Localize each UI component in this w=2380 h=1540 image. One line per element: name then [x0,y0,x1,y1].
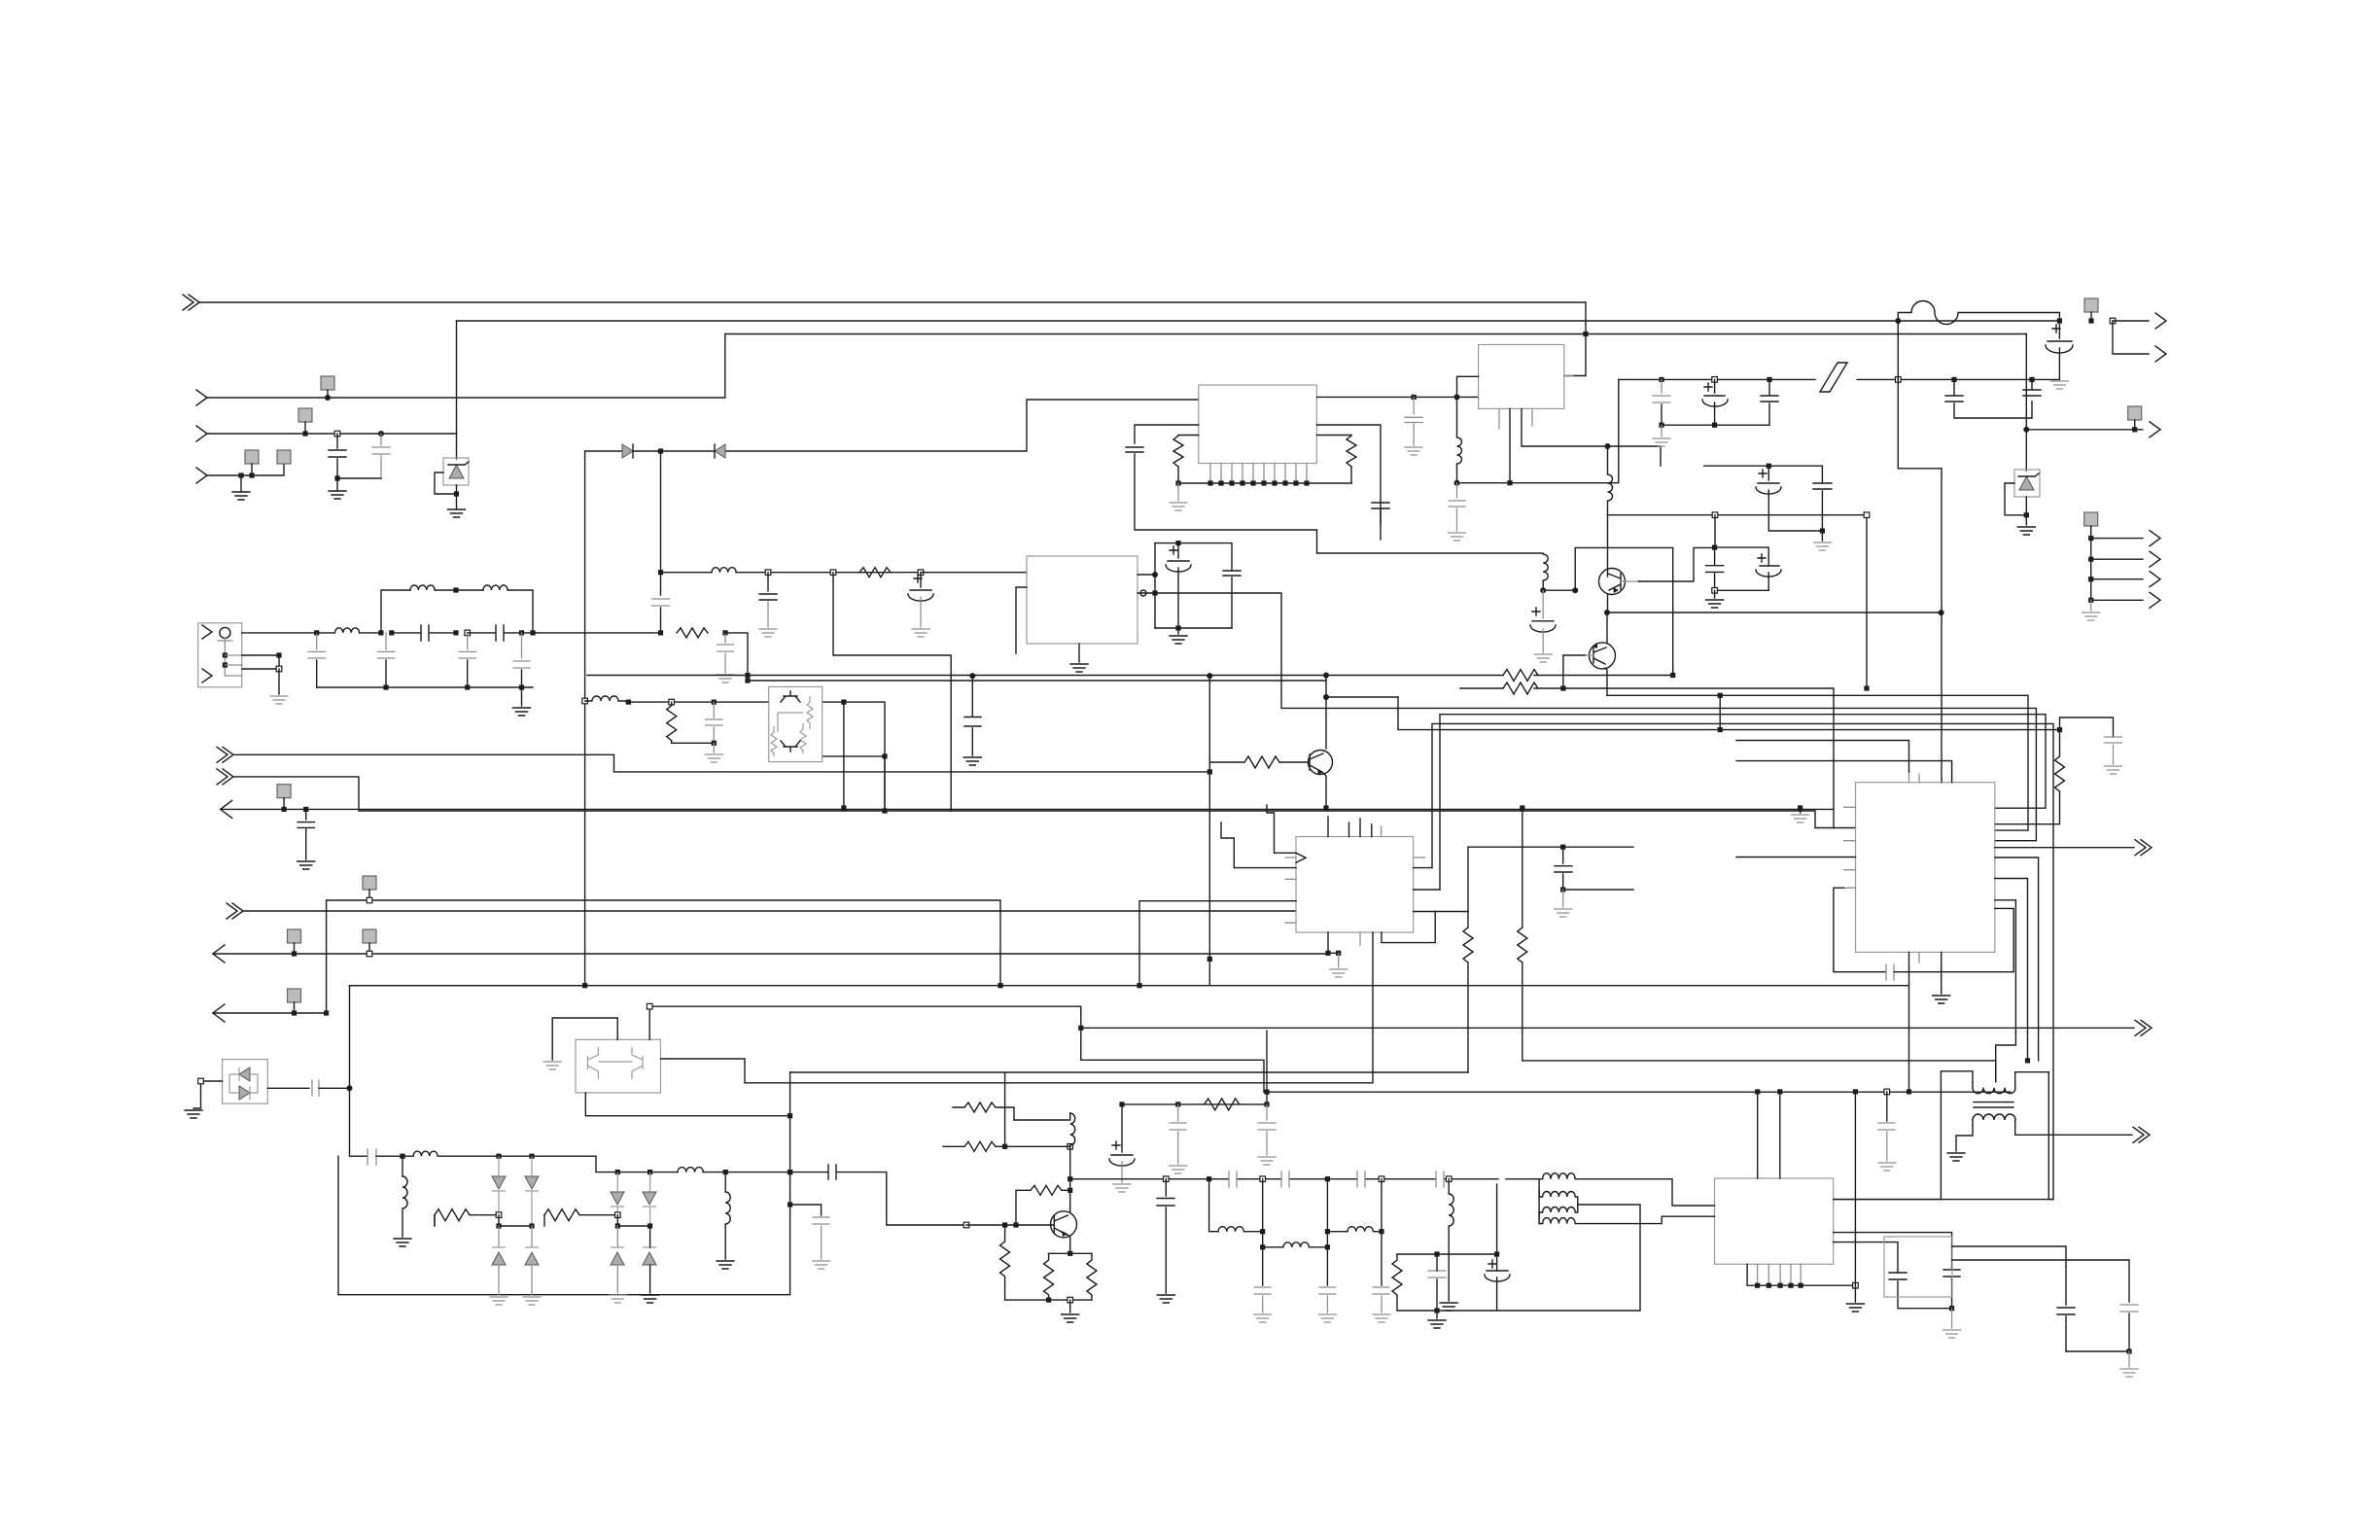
wire bottom rail [1155,627,1232,629]
capacitor C18 [1405,397,1422,445]
capacitor C15 electrolytic [1166,543,1191,572]
wire bus3 [725,333,2026,335]
diode D10 col [611,1192,624,1205]
diode D6 col [492,1176,506,1189]
wire secondary left gnd [1956,1126,1973,1151]
ground under TVS1 [456,494,458,509]
inductor L10 [413,1151,499,1156]
capacitor C32 [1555,847,1572,890]
ground caps row [1661,425,1662,437]
diode D3 [622,444,633,458]
series capacitor C8 [468,625,537,641]
pad TP10 [363,929,376,943]
wire U6 left 881 [1736,857,1856,858]
wire U6 left pins [1844,807,1856,888]
IC U6 [1856,783,1995,953]
wire U1 right pin1 to U4 [1316,396,1478,398]
wire Q2 emitter [1067,1235,1070,1253]
RCA connector J1 [198,623,242,687]
T2 primary [1973,1088,2015,1094]
wire U6 top pins [1909,772,1920,783]
wire pair1 rail top [1704,466,1823,483]
inductor L4 [585,696,626,701]
node open [2110,318,2116,324]
wire U4 left pin [1457,376,1479,397]
wire U6 right 957 [1995,900,2016,1032]
capacitor C49 [1878,1123,1895,1161]
wire Q3 collector [1607,515,1609,569]
inductor L5 [712,568,736,573]
capacitor C23 [1761,379,1778,425]
wire TVS bracket [435,472,457,494]
connector arrow >> bus1 left [183,295,199,310]
wire U3 left pin2 [1016,587,1027,653]
wire y717 Q1 collector riser [1325,676,1327,750]
inductor L12 vert [725,1172,730,1259]
pad TP2 [298,408,312,422]
diode D12 up [611,1246,624,1248]
inductor L7 vert w/ coil 488-518 [1608,446,1613,515]
diode D9 up [525,1246,539,1248]
wire y708 [1460,688,1834,828]
ground C51 [1951,1309,1953,1328]
resistor R13 [943,1141,1005,1151]
wire 1908 vert [1854,1092,1856,1302]
capacitor C13 [759,573,777,600]
diode D7 col [525,1176,539,1189]
inductor L17 vert [1449,1179,1453,1301]
wire coil left vert [1538,1179,1540,1224]
wire V603 to L1013 [350,985,585,987]
wire y715 [1607,695,2028,830]
wire TVS2 bracket [2005,483,2026,515]
wire Q1 emitter [1323,773,1326,808]
wire diode box left gnd [193,1081,223,1108]
capacitor C28 [1706,547,1724,590]
capacitor C1 [329,434,346,478]
wire cap branch [790,1205,822,1215]
resistor R3 [859,568,891,577]
wire L799 step L834 [233,777,1856,828]
wire Q3 emitter to 630 [1607,594,1609,612]
wire U6 bottom loop [1834,888,1886,972]
resistor R2c inside [800,723,806,753]
wire opto out 778 [822,756,885,811]
wire U5 clk riser [1267,805,1296,853]
capacitor C27 [1813,483,1832,531]
IC U1 [1199,385,1317,464]
inductor L16 [1327,1227,1382,1232]
capacitor C20 [1449,483,1465,531]
capacitor C10 [303,807,308,812]
connector arrow > line L5 [196,468,207,483]
wire U6 right 901 arrow [1995,847,2134,849]
wire U5 right 937 [1414,911,1468,913]
wire rail1 [499,1215,532,1226]
connector arrow > line L3 [196,390,207,405]
capacitor C12 [717,633,734,673]
wire U7 bottom left [585,1093,789,1116]
capacitor C38 [813,1217,829,1259]
pad TP8 [277,785,291,798]
inductor L21 (bottom coil) [1543,1218,1576,1224]
resistor R1 [677,628,708,638]
wire bottom rail [317,686,533,688]
wire 4-fan vertical [2090,539,2092,601]
wire L1057 [1081,1027,2134,1029]
wire L1035 [649,1006,1264,1092]
capacitor C22 electrolytic [1702,379,1728,406]
wire rail2 [617,1215,649,1226]
resistor R19 vert [667,702,677,743]
wire caps rail [2066,1350,2129,1352]
wire cap bottoms [337,477,381,479]
connector arrows fan [2150,531,2160,546]
wire fan lines [2091,539,2143,601]
inductor L1 [334,628,359,633]
wire branch 857 [833,573,951,811]
pad TP4 [277,450,291,464]
pin bus U1 [1178,482,1351,484]
TVS D_Z1 box [443,458,469,485]
wire step to arrow2 [2113,321,2149,354]
connector arrow right V+ [2113,320,2149,322]
wire diode box right [267,1087,309,1089]
capacitor C53 electrolytic [1485,1271,1510,1281]
ground pair1 [1821,531,1823,541]
wire U8 right pin A [1834,1199,1942,1201]
capacitor C51 [1943,1270,1960,1309]
resistor R16 [1087,1253,1097,1300]
ground C32 [1562,890,1564,907]
capacitor C9 [513,633,530,668]
wire Q3 base right [1621,580,1639,582]
capacitor C11 in vert [652,599,670,606]
inductor L11 [678,1168,703,1172]
transformer T2 frame A [2015,1072,2053,1200]
wire rail 764 [672,742,715,744]
ground under C3 [2050,381,2068,389]
connector arrow < L831 [221,800,232,818]
wire U5 right 915 riser [1414,889,1440,891]
resistor R2 inside [807,696,813,729]
IC U3 [1027,556,1137,644]
node arrow3 junction [2023,427,2029,433]
resistor R10 [435,1209,499,1221]
T2 secondary [1973,1114,2015,1120]
wire U5 right 882 [1414,857,1425,858]
inductor L6 vert [1457,397,1462,482]
wire diode row [585,400,1199,451]
inductor L9 vert [402,1156,407,1237]
U8 left RC cluster [1434,1251,1439,1256]
capacitor C34 [1170,1104,1186,1164]
pad TP7 [2084,512,2098,526]
node bus3/vert junction [1583,332,1588,336]
wire L776 to L794 [233,754,1209,772]
resistor R4 left [1178,435,1199,437]
node D junction [658,448,663,453]
capacitor C4 [308,633,326,658]
wire 1952 drop to 1997 [1898,379,1942,783]
fuse F1 [1898,301,2059,325]
diode D11 col [643,1192,656,1205]
IC U4 [1479,345,1564,409]
wire V335 step [327,900,1000,1013]
wire V1244 [1207,673,1212,679]
wire U8 right pin caps [1834,1233,1952,1270]
grounds D8 D9 [490,1297,507,1305]
capacitor C25 [2023,379,2041,396]
wire L3 [207,334,725,399]
connector arrow > line L4 [196,426,207,441]
ground under TVS2 [2025,515,2027,525]
wire bottom rail Q2 [1005,1299,1092,1301]
wire RCA signal [242,632,317,634]
ground gray [759,629,777,637]
node fuse junction [1895,318,1901,324]
wire y915 out [1563,889,1633,891]
small open pin circle [1140,590,1146,596]
ground RCA [278,669,280,694]
wire 1365 vert [1326,1179,1328,1285]
transistor Q3 [1599,569,1626,595]
wire bus3 drop right [2025,334,2027,430]
transistor Q8 glyph [632,1047,643,1079]
capacitor C47 [1319,1287,1336,1312]
connector arrow >> right 1057 [2135,1020,2152,1035]
wire row 588 [661,572,713,574]
series capacitor C39 [367,1149,376,1165]
node bus2 end junction [2057,318,2062,323]
wire Q4 base [1585,654,1593,656]
resistor R18 [1392,1254,1437,1311]
wire 1298 vert [1262,1179,1264,1285]
connector arrow < L981 [213,945,225,962]
wire U7 right pin [661,1059,746,1083]
ground gray under C12 [717,675,734,682]
wire coupled out [1497,1205,1640,1311]
wire rail 1135.9 [1122,1092,1267,1104]
connector arrow >> L937 [227,903,243,919]
wire pair2 rail bottom [1715,589,1769,591]
wire bus2 [457,320,2060,322]
wire 1764 drop [1714,515,1716,547]
inductor L19/L20 coupled pair [1539,1190,1578,1205]
inductor L15 [1263,1242,1328,1247]
upper rail inductors L2 L3 [381,590,410,633]
wire L1113 [745,932,1373,1083]
capacitor C30 [2105,737,2122,764]
wire U7 top right [648,1006,650,1039]
wire L831 [221,808,1834,810]
wire y871 [1468,846,1563,848]
wire U7 gnd left [552,1018,617,1060]
wire Q2 collector chain [1069,1146,1071,1211]
wire 1299 riser [1266,1031,1268,1092]
series capacitor C40 [828,1165,966,1225]
wire y734 [1440,715,2046,890]
wire y694 [587,547,1673,675]
resistor R14 fb [1016,1185,1069,1225]
ground under C10 [297,861,315,869]
wire V1 [456,321,458,459]
T2 core [1974,1102,2013,1107]
transistor Q4 [1590,643,1616,669]
wire arrow3 [2026,429,2143,431]
resistor R15 [1044,1253,1054,1300]
capacitor C46 [1254,1287,1271,1312]
wire 1940 vert cap [1886,1092,1888,1121]
wire L1122.9 [1264,1091,2011,1093]
diode D8 up [492,1246,506,1248]
wire opto out elbow [725,633,1326,681]
diode box D5 [223,1060,268,1104]
wire L1042 [213,1012,327,1014]
wire bus1 drop to IC-B pin [1564,334,1586,376]
wire 1421 vert [1381,1179,1382,1285]
ground caps [2128,1351,2130,1367]
ground Q2 [1069,1300,1071,1312]
capacitor C24 [1945,379,2032,418]
wire pair2 rail top [1715,547,1769,566]
resistor R11 [544,1209,617,1221]
resistor R6 vert [1995,730,2065,824]
resistor R12 top [953,1102,1014,1120]
wire V601 [584,451,586,986]
capacitor C2 [372,434,390,478]
capacitor C31 electrolytic [1542,590,1544,618]
ground left of U6 [1800,808,1802,813]
wire 497 rail [1457,379,1619,482]
module box U9 [1884,1237,1952,1297]
capacitor C35 [1258,1104,1276,1155]
wire 867 drop [843,702,845,808]
wire V679 [660,451,662,595]
wire U1 right pin2 [1316,425,1381,525]
capacitor C54 [2057,1308,2075,1351]
resistor R8 [1520,805,1524,810]
sub branch left [1209,1179,1218,1232]
capacitor C16 [1223,571,1241,628]
connector arrow < L1042 [213,1004,225,1022]
ground under L5 [240,475,242,492]
wire V812 [338,1072,790,1295]
wire bus1 [199,302,1586,334]
wire U5 bot-right loop [1382,912,1435,943]
ground pair2 [1714,590,1716,598]
IC U2 dual-transistor box [769,686,822,761]
diode D13 up [643,1246,656,1248]
diode D4 [715,444,725,458]
wire y630 [1607,612,1942,613]
wire y529 row [1608,515,1868,688]
transistor Q2 [1051,1211,1077,1238]
ground [1177,628,1179,634]
capacitor C19 [1372,503,1389,540]
transistor Q1 [1309,751,1333,775]
wire L1103 [790,1071,1468,1073]
U1 bottom pins [1210,464,1307,484]
wire U3 out2 [1137,592,1155,594]
wire V359 riser [350,986,368,1156]
capacitor C41 [1157,1179,1174,1293]
capacitor C14 electrolytic [908,573,933,601]
grounds D12 D13 [609,1295,626,1303]
capacitor C55 [2120,1305,2138,1312]
wire 1510 riser/resistor [1463,847,1473,1072]
clock pin glyph [1296,853,1306,862]
ground filter [521,687,523,706]
transistor Q7 glyph [588,1047,599,1079]
U8 bottom pins [1758,1264,1802,1285]
node open junction C row [334,431,340,437]
connector arrow >> L799 [217,769,233,785]
U8 top pins [1758,1092,1780,1178]
inductor L8 vert [1542,553,1544,554]
jumper symbol [1820,363,1847,392]
wire y744 [1432,723,2053,1199]
pad TP11 [288,989,301,1002]
transformer T2 frame B [1941,1071,1973,1200]
capacitor C5 [378,633,396,658]
wire U1 pin cap left [1135,425,1199,443]
U5 left gray stubs [1285,857,1296,923]
wire caps rail [1662,424,1769,426]
resistor R9 [1205,1099,1240,1110]
T2 center tap [1995,1061,1997,1082]
transistor Q6 glyph [781,741,800,752]
ground cluster [1436,1311,1438,1318]
wire U9 out caps [1952,1246,2066,1305]
wire U4 right pin drop [1564,375,1573,377]
capacitor C52 [1428,1271,1446,1277]
wire R10 drop [434,1215,436,1226]
pad TP12 [363,876,376,890]
pad TP1 [321,376,334,390]
capacitor C29 electrolytic [1756,566,1781,590]
wire L937 [243,910,1296,912]
wire center tap line [1522,1061,1996,1082]
ground under C1 [336,478,338,491]
capacitor C48 [1373,1287,1389,1312]
ground under fan [2090,600,2092,611]
capacitor C3 electrolytic [2046,321,2073,353]
wire row 722 [626,702,885,811]
wire cap rails [1155,543,1232,571]
series capacitor C37 [312,1080,319,1096]
resistor R5 right [1316,435,1351,437]
wire U6 bottom pins [1908,952,1910,985]
inductor L18 (top coil) [1543,1173,1576,1179]
TVS D_Z2 box [2014,470,2040,497]
pad TP3 [245,450,259,464]
wire emitter rail [1049,1252,1092,1254]
wire ladder row [1070,1178,1543,1180]
wire L1013 [350,986,1909,1092]
wire Q4 collector [1606,612,1608,643]
wire 2064 drop [1996,1032,2016,1061]
capacitor C56 [706,702,723,743]
wire pin rail [1747,1264,1855,1285]
ground rail [713,743,715,752]
wire U5 right 892 riser [1414,867,1432,869]
wire row out [533,632,661,634]
wire U5 left pin 892 [1221,822,1296,868]
wire row to IC-C [921,572,1027,574]
wire 2076 drop to T2 area [2027,1032,2029,1061]
IC U7 [576,1039,661,1093]
